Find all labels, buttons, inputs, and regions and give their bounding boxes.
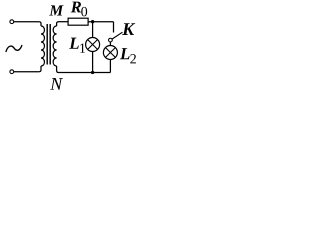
label K xyxy=(122,23,135,35)
AC source terminal top xyxy=(10,20,14,24)
resistor R0 xyxy=(68,18,88,25)
transformer secondary winding xyxy=(53,26,56,66)
wire secondary bottom lead xyxy=(57,66,59,73)
label L2 xyxy=(120,48,130,59)
switch K blade xyxy=(112,32,123,39)
label R0 xyxy=(71,2,81,13)
wire L1 branch down xyxy=(92,22,94,38)
wire L1 to bottom rail xyxy=(92,52,94,73)
wire primary bottom lead xyxy=(39,66,41,72)
wire top-left xyxy=(14,21,39,23)
lamp L1 xyxy=(86,38,100,52)
wire down to switch xyxy=(113,22,115,33)
lamp L2 xyxy=(103,46,117,60)
bottom rail secondary xyxy=(59,72,110,74)
transformer core xyxy=(46,24,48,65)
wire primary top lead xyxy=(39,22,41,26)
AC source terminal bottom xyxy=(10,70,14,74)
node junction top xyxy=(91,20,94,23)
wire R0 to corner xyxy=(88,21,113,23)
node junction bottom xyxy=(91,71,94,74)
wire to R0 xyxy=(59,21,68,23)
label L1 xyxy=(69,38,79,49)
switch K pivot circle xyxy=(109,38,113,42)
label M xyxy=(49,5,63,15)
wire bottom-left xyxy=(14,71,39,73)
AC source tilde xyxy=(6,46,22,52)
transformer primary winding xyxy=(41,26,44,66)
wire L2 to bottom rail xyxy=(109,60,111,73)
wire switch to L2 xyxy=(109,42,111,46)
label N xyxy=(50,78,63,90)
wire secondary top lead xyxy=(57,22,59,26)
